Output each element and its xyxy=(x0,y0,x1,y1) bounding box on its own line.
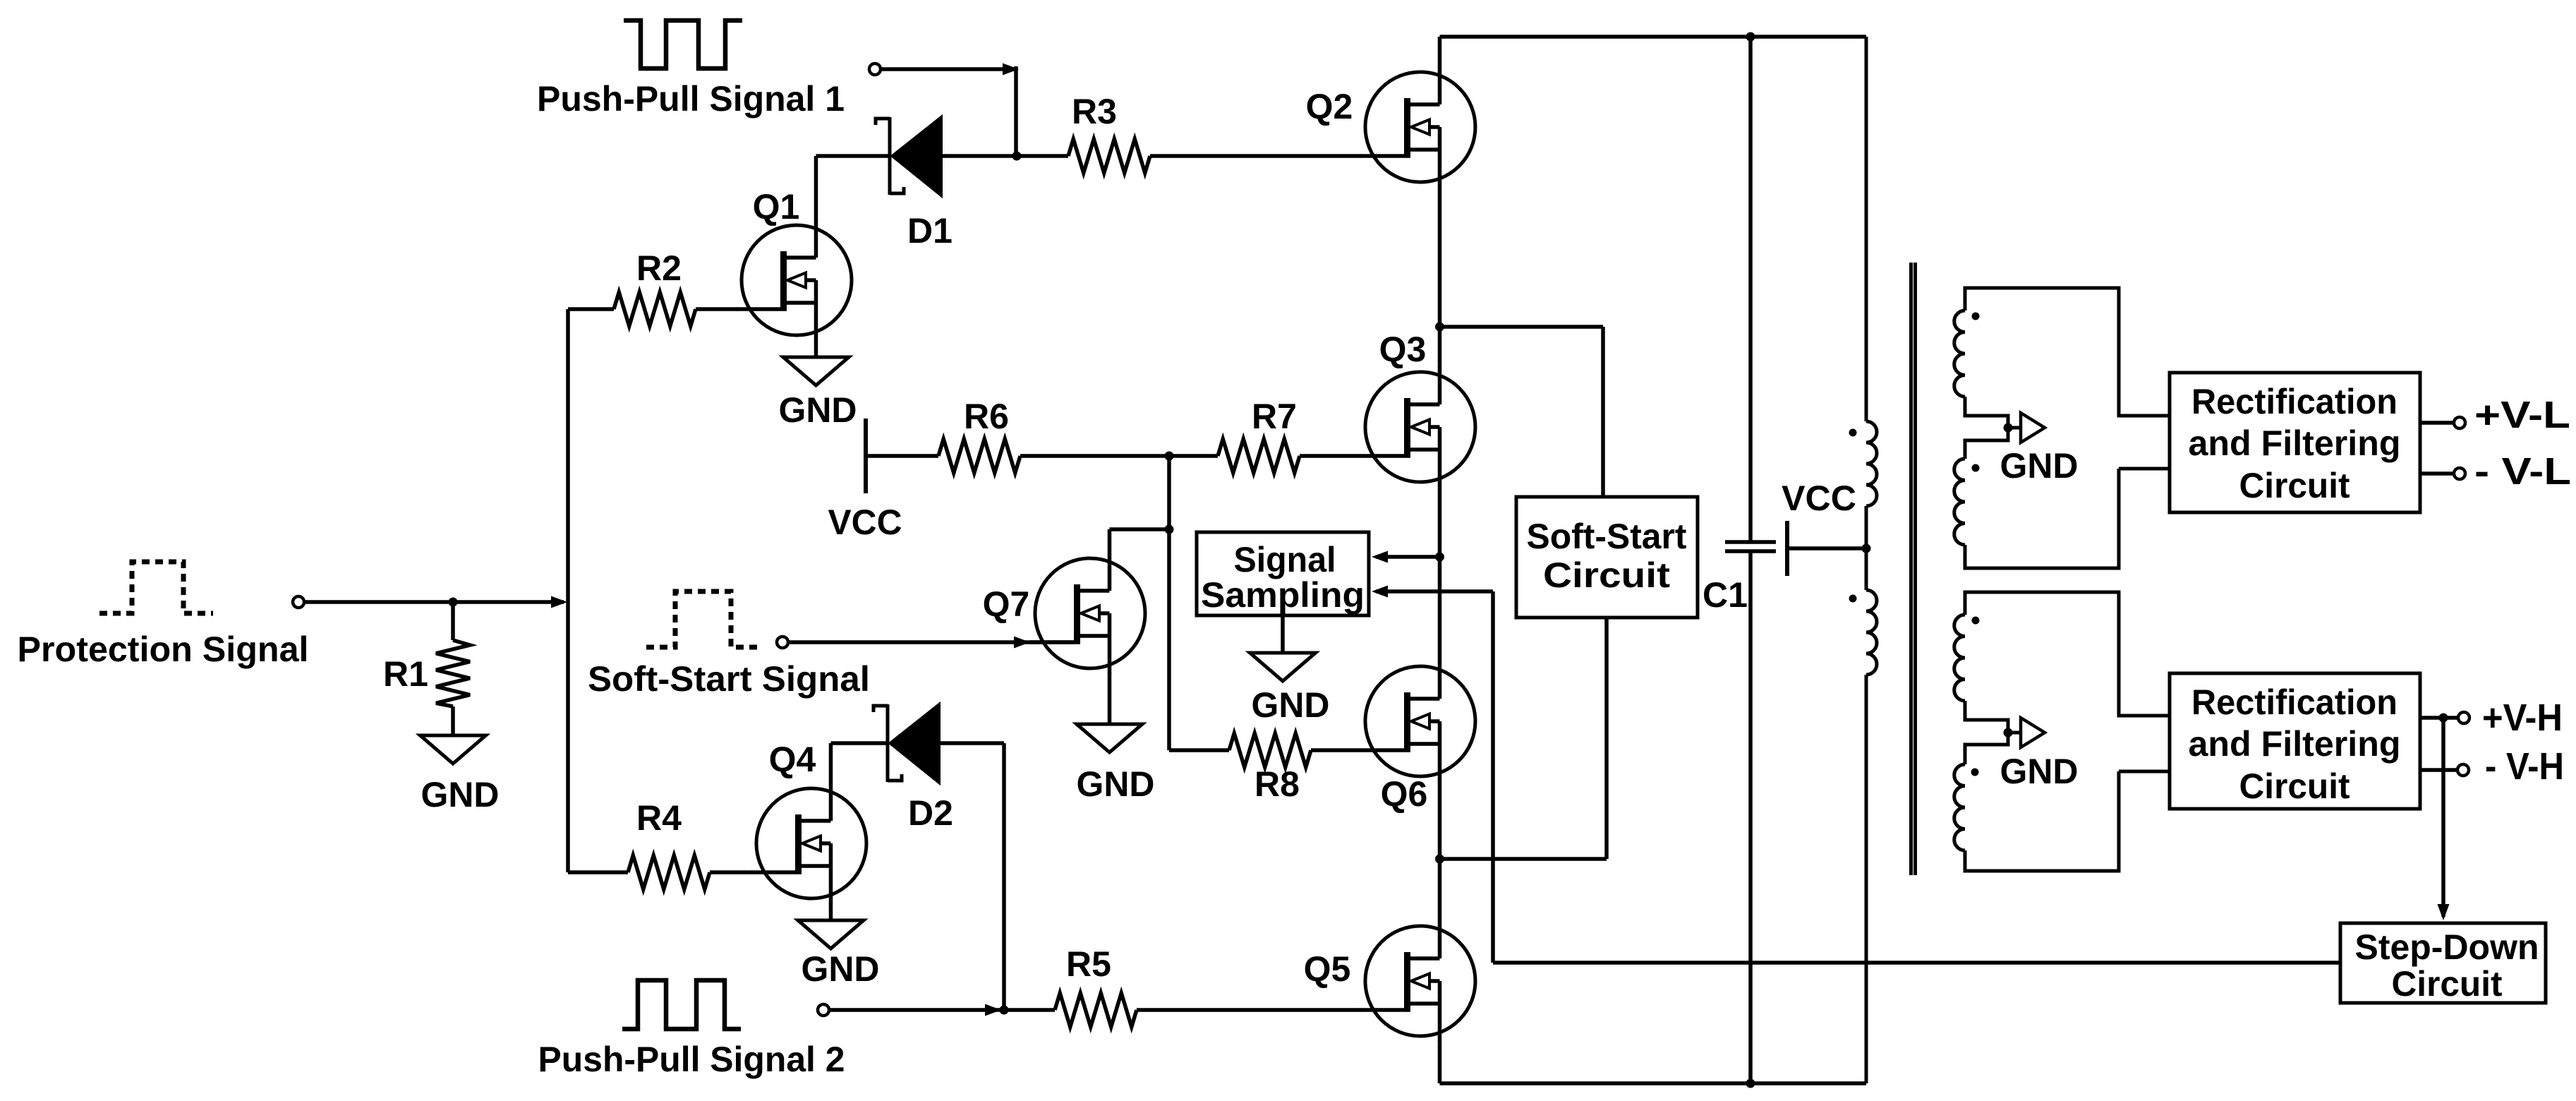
node D2-R5 junction xyxy=(1000,1006,1009,1015)
capacitor C1 xyxy=(1725,542,1776,551)
wire Q4 drain to D2 xyxy=(831,741,889,745)
wire soft-start signal to Q7 gate xyxy=(788,640,1074,644)
terminal -V-H xyxy=(2457,764,2469,776)
wire secondary2 tap lead xyxy=(2008,731,2022,735)
ground below Q4 xyxy=(798,920,864,949)
svg-text:GND: GND xyxy=(802,949,880,989)
svg-text:Q4: Q4 xyxy=(769,740,816,779)
wire corner down to D1 node xyxy=(1014,66,1018,156)
wire R7 to Q3 gate xyxy=(1300,454,1361,458)
svg-text:Circuit: Circuit xyxy=(2239,766,2350,806)
node sampling tap upper xyxy=(1435,553,1444,562)
wire VCC to R6 xyxy=(866,454,938,458)
svg-text:Q5: Q5 xyxy=(1304,949,1351,989)
wire Q1 source down xyxy=(814,339,818,357)
svg-text:Step-Down: Step-Down xyxy=(2355,927,2539,967)
arrowhead into bus xyxy=(551,596,567,608)
svg-text:Sampling: Sampling xyxy=(1201,575,1365,615)
transistor Q1 xyxy=(737,220,852,340)
block Step-Down Circuit xyxy=(2340,923,2546,1003)
svg-text:R6: R6 xyxy=(964,397,1009,436)
block Rectification and Filtering Circuit 1 xyxy=(2170,373,2420,512)
svg-text:R1: R1 xyxy=(383,654,428,694)
wire R5 to Q5 gate xyxy=(1137,1008,1361,1012)
svg-text:GND: GND xyxy=(1252,685,1330,725)
ground below Q1 xyxy=(783,357,849,385)
wire bottom rail xyxy=(1440,1081,1867,1085)
wire Q7 drain up xyxy=(1108,529,1112,554)
svg-text:Q6: Q6 xyxy=(1381,774,1428,814)
ground below R1 xyxy=(421,735,486,764)
terminal Protection Signal xyxy=(293,596,304,608)
node bottom rail C1 xyxy=(1746,1079,1755,1088)
node R1 tap xyxy=(449,598,458,607)
resistor R4 xyxy=(628,855,710,889)
node top rail C1 xyxy=(1746,32,1755,42)
wire Q4 source down xyxy=(829,903,833,920)
svg-text:and Filtering: and Filtering xyxy=(2189,724,2401,764)
wire +V-H output xyxy=(2420,716,2458,720)
wire Q1 drain up xyxy=(814,156,818,221)
terminal Push-Pull Signal 2 xyxy=(818,1004,829,1016)
resistor R8 xyxy=(1229,733,1311,767)
svg-text:- V-H: - V-H xyxy=(2485,745,2564,788)
transistor Q5 xyxy=(1360,921,1475,1041)
signal icon Push-Pull Signal 2 xyxy=(622,980,741,1029)
svg-text:Q7: Q7 xyxy=(983,584,1030,624)
wire primary mid xyxy=(1865,506,1868,590)
transformer core xyxy=(1911,263,1916,875)
wire R6 to R7 xyxy=(1020,454,1218,458)
node phase dot sec1 upper xyxy=(1972,313,1980,320)
wire soft-start bottom connector xyxy=(1440,618,1607,859)
svg-text:Soft-Start Signal: Soft-Start Signal xyxy=(588,659,870,699)
wire top rail xyxy=(1440,35,1867,39)
transistor Q4 xyxy=(751,783,866,903)
winding primary lower xyxy=(1866,590,1877,675)
wire secondary1 loop xyxy=(1965,288,2170,568)
signal icon Push-Pull Signal 1 xyxy=(624,20,742,68)
node R6-R7 junction xyxy=(1165,452,1174,461)
node secondary2 tap xyxy=(2004,728,2013,738)
svg-text:Push-Pull Signal 2: Push-Pull Signal 2 xyxy=(538,1040,845,1079)
svg-text:Circuit: Circuit xyxy=(2239,466,2350,505)
signal icon Protection Signal xyxy=(99,562,213,613)
resistor R1 xyxy=(436,640,470,706)
wire protection signal xyxy=(304,600,564,604)
arrowhead sampling lower xyxy=(1372,586,1388,598)
node phase dot sec2 lower xyxy=(1971,769,1979,776)
svg-text:Protection Signal: Protection Signal xyxy=(18,630,309,669)
node Q3 drain tap xyxy=(1435,323,1444,332)
ground below Signal Sampling xyxy=(1250,653,1316,681)
wire long to step-down xyxy=(1493,961,2340,965)
wire bus to R2 xyxy=(568,307,614,311)
wire D2 to R5 column xyxy=(939,743,1004,1010)
terminal Soft-Start Signal xyxy=(777,637,788,648)
resistor R3 xyxy=(1068,139,1150,173)
signal icon Soft-Start Signal xyxy=(646,591,763,647)
wire Q7 drain to R6 node xyxy=(1110,527,1170,531)
wire +V-L output xyxy=(2420,421,2454,425)
wire C1 column upper xyxy=(1748,37,1753,542)
svg-text:VCC: VCC xyxy=(828,503,902,542)
svg-text:and Filtering: and Filtering xyxy=(2189,423,2401,463)
winding secondary2 lower xyxy=(1954,764,1965,850)
tap arrow secondary2 xyxy=(2021,718,2045,747)
svg-text:GND: GND xyxy=(2000,752,2079,791)
svg-text:Q1: Q1 xyxy=(753,187,800,227)
svg-text:D2: D2 xyxy=(908,793,953,833)
svg-text:Q2: Q2 xyxy=(1306,87,1353,126)
arrowhead into Q7 gate xyxy=(1014,637,1030,649)
svg-text:+V-H: +V-H xyxy=(2482,697,2563,739)
svg-text:GND: GND xyxy=(1077,764,1155,804)
node +V-H junction xyxy=(2439,714,2448,723)
wire Q7 source down xyxy=(1108,673,1112,724)
resistor R5 xyxy=(1055,993,1137,1027)
wire +V-H to step-down xyxy=(2441,718,2445,917)
wire terminal to corner xyxy=(881,67,1014,71)
svg-text:R3: R3 xyxy=(1072,92,1117,131)
svg-text:R4: R4 xyxy=(636,798,682,838)
resistor R6 xyxy=(938,439,1020,473)
tap arrow secondary1 xyxy=(2021,413,2045,443)
transistor Q7 xyxy=(1030,553,1145,673)
diode D2 xyxy=(873,703,940,784)
wire terminal to R5 xyxy=(829,1008,1055,1012)
block Rectification and Filtering Circuit 2 xyxy=(2170,673,2420,809)
wire D1 to R3 xyxy=(941,154,1068,158)
svg-text:Rectification: Rectification xyxy=(2191,382,2397,421)
transistor Q6 xyxy=(1360,661,1475,781)
diode D1 xyxy=(876,116,942,197)
wire sampling lower column xyxy=(1491,591,1495,963)
wire sampling arrow upper xyxy=(1376,555,1440,559)
wire C1 column lower xyxy=(1748,551,1753,1083)
terminal +V-L xyxy=(2454,417,2465,428)
svg-text:D1: D1 xyxy=(907,211,953,251)
wire primary bus upper xyxy=(1865,37,1868,421)
svg-text:R7: R7 xyxy=(1252,397,1297,436)
node secondary1 tap xyxy=(2004,423,2013,433)
node soft-start bottom tap xyxy=(1435,855,1444,864)
node R6 column mid xyxy=(1165,525,1174,534)
wire Q1 drain to D1 xyxy=(816,154,891,158)
svg-text:C1: C1 xyxy=(1703,575,1748,615)
arrowhead into step-down xyxy=(2438,904,2450,920)
resistor R2 xyxy=(614,292,696,326)
svg-text:Circuit: Circuit xyxy=(2392,964,2503,1004)
svg-text:R8: R8 xyxy=(1254,764,1300,804)
svg-text:Signal: Signal xyxy=(1234,540,1336,579)
node phase dot primary lower xyxy=(1849,595,1857,603)
winding secondary1 lower xyxy=(1954,459,1965,545)
wire R1 bottom lead xyxy=(451,706,455,735)
transistor Q3 xyxy=(1360,367,1475,487)
block Signal Sampling xyxy=(1197,532,1369,615)
wire to R8 xyxy=(1169,748,1229,752)
wire VCC to primary tap xyxy=(1787,546,1866,550)
arrowhead into corner xyxy=(1003,64,1019,76)
ground below Q7 xyxy=(1077,724,1142,752)
svg-text:GND: GND xyxy=(779,390,857,430)
terminal +V-H xyxy=(2458,712,2469,723)
wire primary bus lower xyxy=(1865,675,1868,1083)
svg-text:Push-Pull Signal 1: Push-Pull Signal 1 xyxy=(537,79,845,119)
wire drain bus segments xyxy=(1438,37,1442,1083)
node phase dot sec2 upper xyxy=(1972,617,1980,625)
wire Q4 drain up xyxy=(829,743,833,784)
svg-text:Soft-Start: Soft-Start xyxy=(1527,517,1687,556)
wire secondary2 loop xyxy=(1965,592,2170,871)
wire R6 node down to R8 xyxy=(1167,456,1171,750)
arrowhead sampling upper xyxy=(1372,551,1388,563)
transistor Q2 xyxy=(1360,67,1475,187)
node D1-R3 junction xyxy=(1012,152,1022,161)
svg-text:R5: R5 xyxy=(1066,944,1111,984)
svg-text:- V-L: - V-L xyxy=(2474,450,2571,493)
svg-text:R2: R2 xyxy=(636,248,682,288)
terminal -V-L xyxy=(2454,468,2465,479)
block Soft-Start Circuit xyxy=(1516,497,1698,618)
svg-text:GND: GND xyxy=(421,775,500,814)
power VCC bar right xyxy=(1785,521,1789,576)
terminal Push-Pull Signal 1 xyxy=(869,64,881,75)
wire soft-start top connector xyxy=(1440,327,1604,497)
node phase dot sec1 lower xyxy=(1972,464,1980,472)
wire R8 to Q6 gate xyxy=(1311,748,1361,752)
resistor R7 xyxy=(1218,439,1300,473)
wire -V-L output xyxy=(2420,471,2454,476)
winding secondary1 upper xyxy=(1954,311,1965,397)
svg-text:+V-L: +V-L xyxy=(2474,394,2570,436)
svg-text:Circuit: Circuit xyxy=(1543,555,1670,595)
wire R3 to Q2 gate xyxy=(1150,154,1361,158)
wire secondary1 tap lead xyxy=(2008,426,2022,430)
wire left gate bus xyxy=(566,309,570,872)
power VCC bar left xyxy=(864,419,868,493)
svg-text:Q3: Q3 xyxy=(1379,330,1427,369)
winding primary upper xyxy=(1866,421,1877,506)
winding secondary2 upper xyxy=(1954,615,1965,701)
wire R1 top lead xyxy=(451,602,455,640)
arrowhead into D2 node xyxy=(985,1004,1001,1016)
wire -V-H output xyxy=(2420,768,2457,772)
svg-text:Rectification: Rectification xyxy=(2191,682,2397,722)
node phase dot primary upper xyxy=(1849,429,1857,437)
wire R2 to Q1 gate xyxy=(696,307,738,311)
svg-text:GND: GND xyxy=(2000,446,2079,486)
wire sampling arrow lower xyxy=(1376,589,1493,594)
wire R4 to Q4 gate xyxy=(710,870,752,874)
wire bus to R4 xyxy=(568,870,628,874)
svg-text:VCC: VCC xyxy=(1782,479,1856,518)
node primary centre tap xyxy=(1862,544,1871,553)
wire sampling gnd lead xyxy=(1281,615,1285,653)
